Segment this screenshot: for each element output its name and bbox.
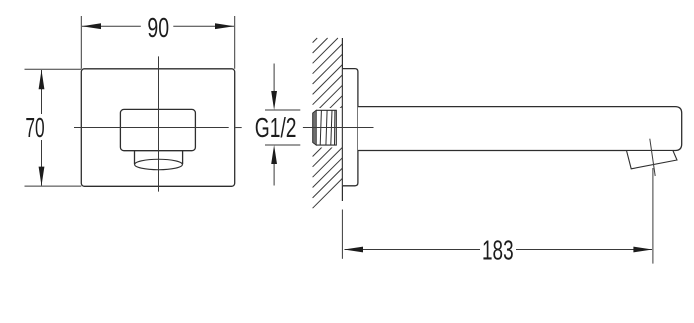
- flange (plate side view): [343, 69, 358, 186]
- svg-text:70: 70: [25, 112, 44, 143]
- white band hiding hatch around thread: [308, 108, 342, 148]
- dim 70 bottom arrowhead: [39, 167, 45, 186]
- dim 183 right extension line (outlet): [652, 168, 654, 264]
- svg-text:G1/2: G1/2: [255, 112, 297, 143]
- dim 90 right arrowhead: [215, 23, 234, 29]
- dim G1/2 top arrow stem: [273, 64, 275, 93]
- vertical centerline front view: [158, 56, 160, 191]
- dim 90 line right segment: [173, 25, 234, 27]
- spout body front: [120, 109, 195, 150]
- dim G1/2 bottom arrowhead: [271, 145, 277, 164]
- horizontal centerline short dash: [235, 127, 242, 129]
- side view centerline: [303, 127, 374, 129]
- dim G1/2 top extension line: [265, 109, 300, 111]
- thread crest lines: [320, 110, 335, 145]
- dim 70 line upper segment: [41, 70, 43, 114]
- dim G1/2 bottom arrow stem: [273, 163, 275, 186]
- outlet cylinder sides: [134, 151, 136, 165]
- outlet axis line: [650, 139, 655, 176]
- dim G1/2 top arrowhead: [271, 91, 277, 110]
- dim 70 top extension line: [25, 68, 82, 70]
- horizontal centerline front view: [74, 127, 229, 129]
- svg-text:90: 90: [147, 12, 169, 43]
- dim 70 top arrowhead: [39, 70, 45, 89]
- dim 183 left extension line (wall): [341, 210, 343, 259]
- thread chamfer facet: [313, 110, 317, 145]
- wall surface line: [341, 38, 343, 201]
- dim 70 line lower segment: [41, 140, 43, 186]
- spout body side view: [358, 107, 682, 151]
- outlet ellipse: [135, 159, 183, 170]
- svg-text:183: 183: [482, 235, 514, 266]
- dim 183 line left segment: [345, 249, 481, 251]
- dim 183 right arrowhead: [633, 247, 652, 253]
- thread G1/2: [313, 110, 337, 145]
- dim 90 line left segment: [82, 25, 141, 27]
- dim 183 line right segment: [516, 249, 652, 251]
- dim G1/2 bottom extension line: [265, 144, 300, 146]
- dim 90 right extension line: [234, 16, 236, 69]
- dim 90 left arrowhead: [82, 23, 101, 29]
- dim 183 left arrowhead: [344, 247, 363, 253]
- dim 90 left extension line: [80, 16, 82, 69]
- outlet (aerator): [627, 151, 678, 169]
- dim 70 bottom extension line: [25, 185, 82, 187]
- thread body outline: [313, 110, 337, 145]
- wall hatching: [313, 38, 343, 208]
- plate outline: [81, 69, 234, 187]
